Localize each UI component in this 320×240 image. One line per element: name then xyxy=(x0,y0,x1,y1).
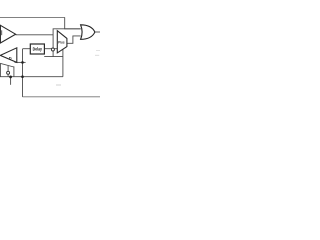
svg-text:Plus: Plus xyxy=(58,41,65,45)
svg-text:D: D xyxy=(9,55,12,60)
svg-text:Delay: Delay xyxy=(33,46,43,51)
